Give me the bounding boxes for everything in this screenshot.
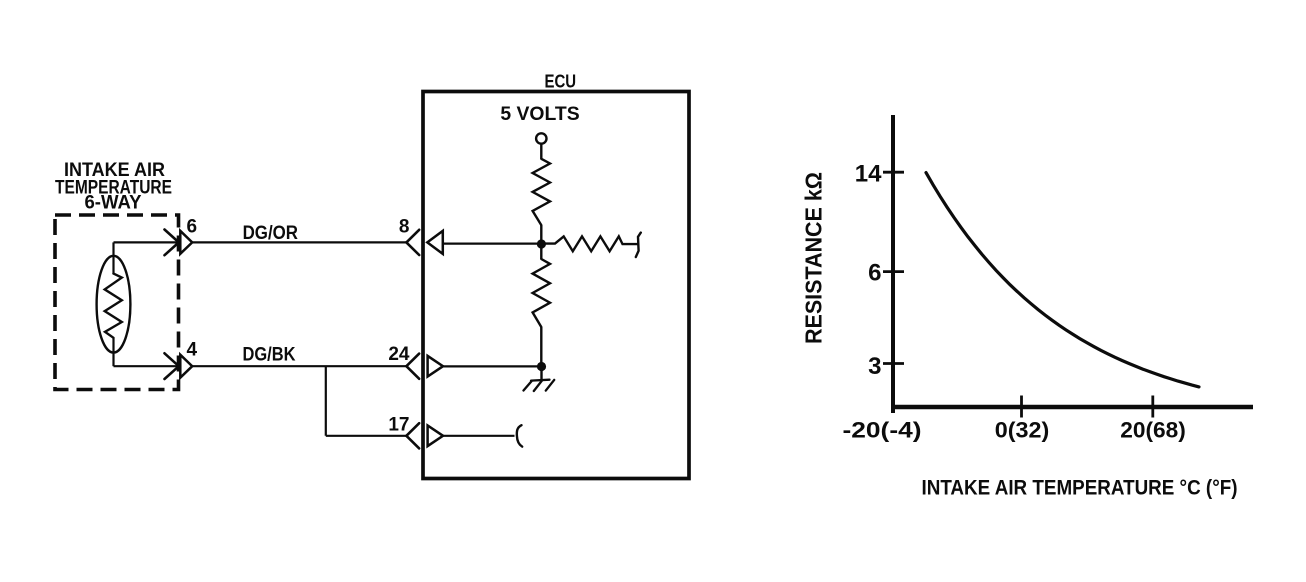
svg-text:6: 6 bbox=[868, 260, 881, 287]
svg-text:4: 4 bbox=[187, 340, 198, 361]
svg-text:24: 24 bbox=[388, 344, 410, 365]
svg-text:-20(-4): -20(-4) bbox=[843, 417, 922, 442]
svg-text:DG/BK: DG/BK bbox=[243, 345, 296, 366]
svg-text:14: 14 bbox=[855, 160, 882, 187]
svg-text:17: 17 bbox=[388, 414, 409, 435]
svg-text:3: 3 bbox=[868, 353, 881, 380]
svg-text:8: 8 bbox=[399, 217, 410, 238]
svg-text:20(68): 20(68) bbox=[1120, 417, 1186, 442]
svg-text:5 VOLTS: 5 VOLTS bbox=[500, 104, 579, 125]
svg-text:6-WAY: 6-WAY bbox=[85, 193, 142, 214]
svg-text:INTAKE AIR TEMPERATURE °C (°F): INTAKE AIR TEMPERATURE °C (°F) bbox=[922, 477, 1238, 500]
svg-text:DG/OR: DG/OR bbox=[243, 223, 299, 244]
svg-text:RESISTANCE kΩ: RESISTANCE kΩ bbox=[801, 172, 827, 344]
svg-text:6: 6 bbox=[187, 217, 198, 238]
svg-text:ECU: ECU bbox=[545, 72, 577, 92]
svg-text:0(32): 0(32) bbox=[995, 417, 1050, 442]
